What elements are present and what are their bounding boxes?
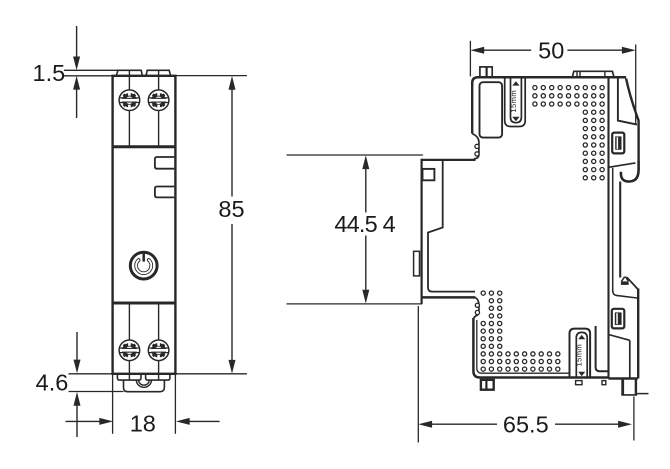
dimension 65.5: left extension line [417,306,419,443]
dimension 85: dimension line and arrows [229,76,236,90]
side view: front plate clip window [423,169,435,180]
front view: bottom terminal block separator (thick) [113,302,175,305]
side view: mid recess wall thin [612,168,614,292]
svg-text:65.5: 65.5 [503,412,549,438]
side view: contour below tooth [613,290,638,298]
side view: DIN gauge boss (bottom) [570,329,591,378]
side view: upper latch slot highlight [617,137,619,149]
side view: front plate inner contour [428,161,475,292]
svg-text:85: 85 [218,196,244,222]
front view: LED window notch 1 [155,157,174,169]
front view: DIN clip foot [124,380,165,392]
front view: terminal center line bottom-left [128,304,130,380]
side view: upper-left hinge bump outline [472,134,479,159]
front view: terminal screw top-left [119,90,140,111]
side view: DIN foot bottom [621,394,637,396]
dimension 4.6: dimension line and arrows [76,332,78,360]
side view: gauge bottom arrow (down) [512,117,519,121]
side view: step slope under fin [609,163,636,167]
side view: ground line right of foot [637,393,648,395]
svg-text:50: 50 [538,38,564,64]
dimension 65.5: dimension line and arrows [418,421,432,428]
side view: front plate left edge [421,159,423,304]
side view: hinge pin circle upper a [475,144,479,148]
side view: top edge [472,77,626,86]
side view: mid recess wall thick [619,182,621,278]
dimension 50: dimension line and arrows [470,47,484,54]
side view: boss foot right [602,381,606,385]
dimension 44.5: top extension line [287,154,423,156]
dimension 44.5: bottom extension line [287,303,423,305]
front view: terminal screw bottom-left [119,340,140,361]
side view: gauge slider tab (top) [511,77,522,122]
front view: top terminal cap right [146,70,171,76]
side view: hinge pin circle lower b [475,310,479,314]
side view: front plate top edge (thick) [422,159,476,161]
side view: lower right outer edge [637,289,639,379]
side view: DIN foot right bar [635,379,637,395]
dimension 85: extension line top [176,75,247,77]
side view: bottom connector block [481,380,494,390]
front view: top terminal cap left [116,70,142,76]
dimension 1.5: extension line top (cap top level) [64,69,118,71]
dimension 18: dimension line and arrows [66,420,100,422]
side view: lower rail tooth [621,281,629,285]
svg-text:4.6: 4.6 [36,369,69,395]
dimension 85: extension line bottom [176,373,247,375]
side view: upper latch outer [612,133,624,154]
side view: rail-clip fin hook [621,161,639,182]
svg-text:15mm: 15mm [575,344,584,367]
side view: bottom edge right section [609,377,638,379]
front view: clip semicircular notch inner [139,380,150,385]
side view: rail-clip fin outer edge [626,79,639,163]
front view: terminal center line top-left [128,70,130,145]
side view: left outer edge (lower) and bottom edge [473,318,608,378]
side view: main right wall [607,78,609,379]
side view: tooth diagonal to outer edge [627,277,638,289]
side view: lower inner wall [629,340,631,378]
side view: DIN foot left bar [621,379,624,395]
front view: top terminal block separator (thick) [113,145,175,148]
side view: hinge pin circle lower a [475,303,479,307]
front view: LED window notch 2 [155,187,174,198]
side view: lower latch slot highlight [616,313,618,324]
side view: gauge top arrow (up) [512,81,519,85]
side view: top right handle bump [572,71,614,77]
dimension 18: left extension line [112,374,114,434]
side view: front terminal window [480,82,503,137]
svg-text:18: 18 [130,410,156,436]
side view: hinge pin circle upper b [475,152,479,156]
side view: button bump divider [486,67,488,77]
side view: lower latch dark insert [615,312,622,325]
side view: bottom gauge down arrow [578,372,585,376]
side view: DIN gauge recess (top) [505,77,526,126]
side view: inner wall line bottom-left [477,320,570,373]
dimension 1.5: dimension line and arrows [76,26,78,57]
side view: bottom connector divider [485,380,487,390]
front view: power button [130,252,157,279]
front view: terminal screw bottom-right [148,340,169,361]
dimension 18: right extension line [174,374,176,434]
side view: left outer edge (upper) [471,84,473,134]
front view: terminal center line top-right [158,70,160,145]
dimension 50: right extension line [635,45,637,124]
side view: lower step slope [609,335,630,341]
side view: DIN release tab (left) [414,251,420,276]
dimension 4.6: extension line top (body bottom extended left) [69,373,113,375]
front view: terminal screw top-right [148,90,169,111]
side view: boss foot left [576,381,582,385]
side view: lower-left hinge bump outline [473,298,479,321]
side view: handle bump dividers [576,71,578,77]
svg-text:1.5: 1.5 [33,60,66,86]
front view: clip semicircular notch outer [136,380,151,388]
dimension 1.5: extension line bottom (body top level) [64,75,113,77]
side view: gauge slider tab (bottom) [576,332,587,377]
front view: bottom tab left [117,374,141,380]
svg-text:15mm: 15mm [509,90,518,113]
dimension 4.6: extension line bottom (clip bottom level) [69,391,124,393]
side view: top button bump [480,67,492,77]
side view: ventilation dots bottom strip [533,86,537,90]
dimension 65.5: right extension line [633,397,635,441]
front view: terminal center line bottom-right [158,304,160,380]
front view: module body outline [113,76,176,374]
dimension 50: left extension line [469,41,471,77]
front view: bottom tab right [146,374,170,380]
side view: upper latch dark insert [615,136,621,149]
svg-text:44.5 4: 44.5 4 [334,211,395,237]
side view: lower latch outer [612,309,625,329]
side view: front plate bottom edge (thick) [422,296,476,299]
side view: ridge right of boss [596,326,608,371]
side view: rail-clip fin inner edge [618,79,637,125]
side view: bottom gauge up arrow [578,335,585,339]
dimension 44.5: dimension line and arrows [362,155,369,169]
